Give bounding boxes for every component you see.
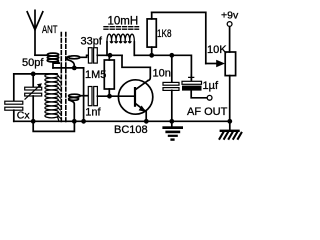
svg-text:1K8: 1K8 [157,28,172,40]
svg-text:10mH: 10mH [108,15,139,27]
node tank bottom junction [31,119,36,124]
transformer core T1 [61,33,66,124]
wire supply rail to pot wiper [152,12,206,63]
node 10n ground junction [169,119,174,124]
node B2 junction 1K8 [149,53,154,58]
capacitor C4 1nf [88,87,97,106]
node emitter ground junction [144,119,149,124]
node B base junction [107,94,112,99]
wire L4 to 1nf [80,95,88,97]
svg-text:1M5: 1M5 [85,69,106,81]
svg-text:50pf: 50pf [22,57,44,69]
wire tank top [14,73,57,75]
svg-text:AF OUT: AF OUT [187,106,228,118]
wire ground loop [33,121,74,131]
resistor R2 1K8 [147,12,156,55]
capacitor Cx trimmer [5,74,23,121]
node G1 drop junction [81,119,86,124]
terminal AF OUT [207,95,212,100]
antenna ANT [27,10,43,55]
pot wiper arrow [206,63,218,65]
svg-text:10K: 10K [207,44,227,56]
node B3 junction 10n [169,53,174,58]
node pot ground junction [227,119,232,124]
transistor Q1 BC108 [118,80,152,122]
capacitor C5 10n [163,55,179,121]
wire L1 bottom to node G1 [53,67,84,69]
inductor L3 main tuning winding [45,74,60,121]
node L4 ground junction [72,119,77,124]
svg-text:+9v: +9v [221,10,239,22]
wire L2 top to 33pf [80,55,89,57]
terminal +9v [227,22,232,27]
inductor L2 tickler winding [67,56,80,66]
capacitor 50pf variable [25,74,42,121]
svg-text:1nf: 1nf [85,106,101,118]
svg-text:33pf: 33pf [81,36,103,48]
ground rail bottom [14,120,230,122]
inductor L5 10mH choke [104,27,139,56]
inductor L4 base coupling winding [69,94,81,119]
capacitor C2 33pf [88,48,97,63]
svg-text:Cx: Cx [17,110,31,122]
wire 33pf to node A [97,54,122,56]
svg-text:10n: 10n [153,68,171,80]
node A junction [108,53,113,58]
wire node G1 drop to ground rail [83,68,85,121]
node tank top junction [31,72,36,77]
inductor L1 antenna coupling winding [47,53,59,68]
ground symbol earth [162,121,183,140]
svg-text:BC108: BC108 [114,124,148,136]
node G1 junction [72,66,77,71]
ground symbol chassis [220,121,242,139]
wire antenna to L1 [35,54,48,56]
svg-text:ANT: ANT [42,24,58,36]
wire collector to node A [122,55,150,80]
wire base node [97,95,133,97]
wire 10mH to supply node [135,55,192,81]
capacitor C6 1uf electrolytic [182,75,207,98]
resistor R1 1M5 [104,55,114,96]
potentiometer VR1 10K [225,26,235,121]
svg-text:1µf: 1µf [203,80,219,92]
